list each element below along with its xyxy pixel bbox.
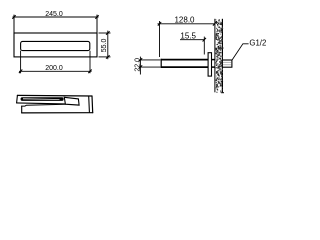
svg-text:15.5: 15.5 (180, 32, 196, 41)
svg-text:22.0: 22.0 (134, 58, 141, 72)
svg-text:245.0: 245.0 (45, 11, 63, 18)
svg-text:55.0: 55.0 (101, 38, 108, 52)
svg-text:128.0: 128.0 (174, 16, 195, 25)
svg-text:200.0: 200.0 (45, 65, 63, 72)
svg-text:G1/2: G1/2 (249, 38, 266, 47)
